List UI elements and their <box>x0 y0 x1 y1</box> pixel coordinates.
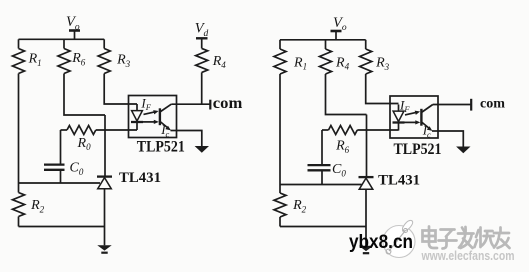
wire R6 bottom to cathode net <box>64 74 105 116</box>
svg-text:IF: IF <box>399 98 410 115</box>
resistor R6 (right comp) <box>329 126 358 135</box>
wire bottom line <box>19 226 105 228</box>
svg-text:R3: R3 <box>116 53 131 69</box>
resistor R1 <box>13 49 25 74</box>
wire cathode net vertical <box>104 115 106 177</box>
svg-text:Vo: Vo <box>66 14 80 32</box>
capacitor C0 <box>44 165 65 170</box>
wire com line (right) <box>433 104 471 106</box>
node Vo (left) supply terminal tick <box>69 31 80 40</box>
svg-text:R1: R1 <box>28 52 42 68</box>
capacitor C0 (right) <box>308 165 331 170</box>
svg-text:R6: R6 <box>71 51 86 67</box>
node com tick (left) <box>209 100 211 110</box>
svg-text:Ic: Ic <box>422 123 431 140</box>
wire C0 top lead <box>60 130 62 164</box>
wire TL431' anode down <box>365 189 367 246</box>
wire R0 right to LED cathode <box>96 129 137 131</box>
wire top bus (right) <box>280 39 366 41</box>
light arrow 2 <box>143 120 159 124</box>
svg-text:C0: C0 <box>70 161 84 177</box>
ground main (left) <box>97 245 111 254</box>
svg-text:R3: R3 <box>375 56 390 72</box>
wire R6 left lead <box>322 129 329 131</box>
svg-text:www.elecfans.com: www.elecfans.com <box>421 249 515 263</box>
phototransistor Q1 <box>160 104 177 130</box>
wire bottom line (right) <box>280 226 366 228</box>
wire R3 bottom to LED anode <box>104 74 137 105</box>
shunt regulator TL431 (right) <box>359 177 374 189</box>
LED inside optocoupler (right) <box>393 105 405 131</box>
wire C0 bottom lead <box>60 171 62 184</box>
ground main (right) <box>359 246 373 255</box>
svg-text:TL431: TL431 <box>378 173 420 189</box>
resistor R0 <box>67 126 96 135</box>
wire R4' bottom to cathode net <box>326 74 367 115</box>
svg-text:ybx8.cn: ybx8.cn <box>349 231 413 253</box>
svg-text:IF: IF <box>140 95 151 112</box>
resistor R1 (right) <box>274 49 286 74</box>
node com tick (right) <box>470 99 472 111</box>
wire R3 top lead <box>103 39 105 48</box>
svg-text:R2: R2 <box>292 198 307 214</box>
wire left rail R1 bottom to R2 top <box>18 74 20 193</box>
resistor R2 (right) <box>274 193 286 217</box>
wire R2' bottom lead <box>279 217 281 227</box>
svg-text:R2: R2 <box>30 198 45 214</box>
wire R1 top lead <box>18 39 20 48</box>
wire R6 top lead <box>63 39 65 48</box>
wire emitter to ground (right) <box>438 131 463 147</box>
wire emitter to ground <box>177 131 202 147</box>
watermark hanzi 电 <box>423 227 438 249</box>
wire TL431 anode down <box>104 189 106 246</box>
resistor R2 <box>13 193 25 217</box>
resistor R4 <box>196 48 208 72</box>
optocoupler U1 TLP521 box <box>129 96 177 138</box>
light arrow 2 (right) <box>405 120 421 124</box>
node Vd supply tick <box>196 38 208 48</box>
svg-text:Vo: Vo <box>333 15 347 33</box>
wire R6 right to LED cathode (right) <box>357 129 398 131</box>
resistor R3 <box>98 49 110 74</box>
svg-text:TLP521: TLP521 <box>137 139 185 156</box>
svg-text:R0: R0 <box>77 136 92 152</box>
wire R1' top lead <box>279 40 281 49</box>
wire R3' bottom to LED anode <box>366 74 399 104</box>
light arrow 1 <box>144 110 159 114</box>
svg-text:C0: C0 <box>332 162 346 178</box>
svg-text:TL431: TL431 <box>119 170 161 186</box>
watermark hanzi 烧 <box>475 228 495 248</box>
shunt regulator U2 TL431 <box>97 177 112 189</box>
LED D1 inside optocoupler <box>131 104 143 130</box>
wire com line (left) <box>171 103 210 105</box>
resistor R4 (right middle) <box>320 49 332 74</box>
ground emitter (left) <box>195 146 209 153</box>
wire R2 bottom lead <box>18 217 20 227</box>
wire ref node line <box>19 182 101 184</box>
wire R4 bottom to com <box>201 72 203 104</box>
wire C0' bottom lead <box>321 171 323 185</box>
wire cathode net vertical (right) <box>366 115 368 178</box>
svg-text:R1: R1 <box>293 55 307 71</box>
wire R3' top lead <box>365 40 367 49</box>
watermark hanzi 发 <box>458 227 474 248</box>
wire ref node line (right) <box>280 184 362 186</box>
wire R0 left lead <box>61 129 68 131</box>
resistor R3 (right) <box>360 49 372 74</box>
optocoupler TLP521 box (right) <box>390 96 438 138</box>
wire top bus (left) <box>19 38 105 40</box>
wire R4' top lead <box>325 40 327 49</box>
phototransistor (right) <box>421 105 438 132</box>
svg-text:TLP521: TLP521 <box>394 141 442 158</box>
resistor R6 <box>58 49 70 74</box>
svg-text:com: com <box>213 95 243 112</box>
light arrow 1 (right) <box>405 111 420 115</box>
wire left rail (right) <box>279 74 281 193</box>
watermark hanzi 子 <box>439 230 457 249</box>
node Vo (right) supply terminal tick <box>331 31 342 40</box>
watermark hanzi 友 <box>494 228 510 249</box>
svg-text:R6: R6 <box>335 139 350 155</box>
watermark logo circle (elecfans) <box>383 220 415 257</box>
svg-text:Vd: Vd <box>195 21 209 39</box>
svg-text:R4: R4 <box>335 55 350 71</box>
svg-text:Ic: Ic <box>160 122 169 139</box>
wire C0' top lead <box>321 130 323 165</box>
ground emitter (right) <box>456 147 470 154</box>
svg-text:R4: R4 <box>212 54 227 70</box>
svg-text:com: com <box>480 96 506 111</box>
